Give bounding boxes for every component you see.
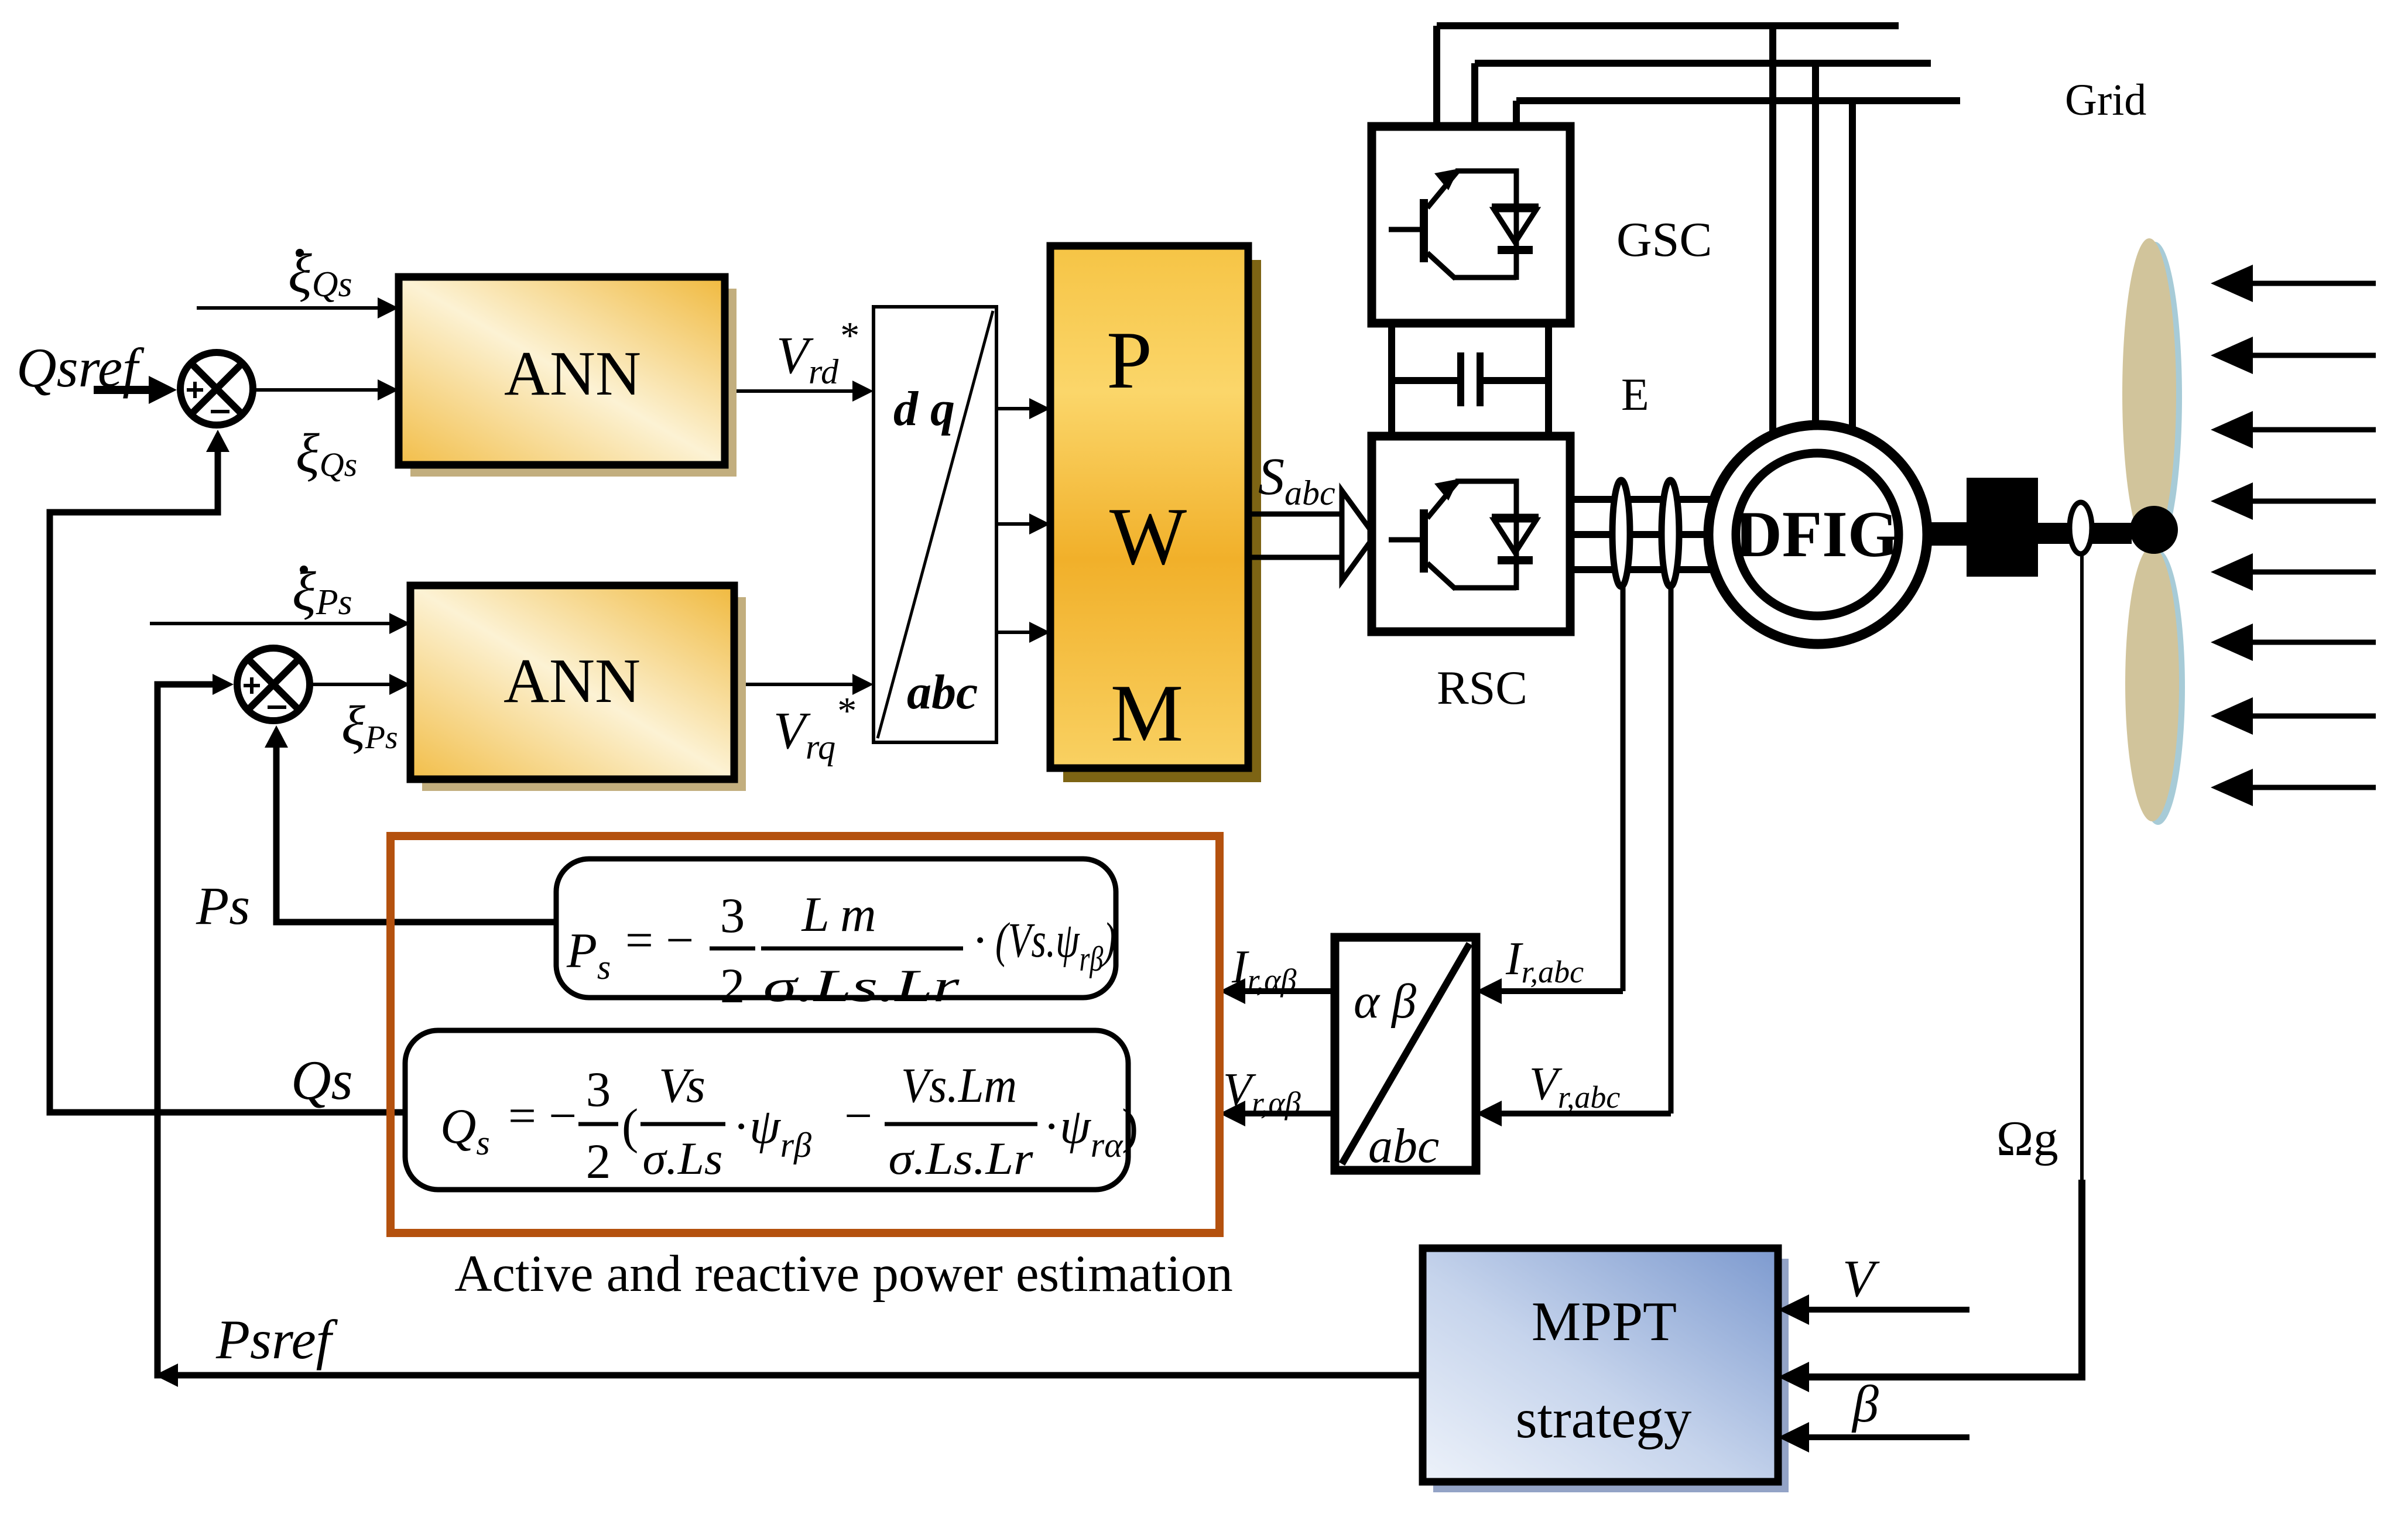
svg-text:β: β — [1851, 1375, 1879, 1433]
svg-text:σ.Ls.Lr: σ.Ls.Lr — [763, 960, 960, 1011]
svg-text:2: 2 — [720, 958, 745, 1013]
svg-text:P: P — [1107, 315, 1152, 406]
svg-text:= −: = − — [625, 913, 694, 968]
svg-text:Ps: Ps — [196, 876, 250, 936]
svg-text:σ.Ls.Lr: σ.Ls.Lr — [889, 1133, 1034, 1184]
svg-text:V: V — [1842, 1250, 1880, 1308]
svg-text:Grid: Grid — [2065, 76, 2146, 125]
svg-text:Qs: Qs — [291, 1049, 353, 1111]
svg-text:Vs.Lm: Vs.Lm — [901, 1058, 1017, 1113]
svg-text:strategy: strategy — [1516, 1388, 1692, 1450]
svg-text:Qsref: Qsref — [16, 337, 145, 399]
svg-text:·: · — [1043, 1099, 1060, 1154]
svg-text:Active and reactive power esti: Active and reactive power estimation — [454, 1245, 1233, 1303]
svg-text:= −: = − — [508, 1088, 577, 1143]
svg-text:Psref: Psref — [215, 1308, 338, 1371]
svg-text:Ωg: Ωg — [1996, 1111, 2058, 1166]
svg-text:Vs: Vs — [659, 1058, 705, 1113]
svg-text:RSC: RSC — [1437, 661, 1527, 714]
svg-text:3: 3 — [586, 1062, 611, 1117]
svg-text:·: · — [733, 1099, 749, 1154]
svg-text:MPPT: MPPT — [1532, 1290, 1677, 1352]
svg-text:W: W — [1109, 491, 1187, 582]
svg-text:2: 2 — [586, 1134, 611, 1189]
svg-text:abc: abc — [1368, 1119, 1439, 1173]
svg-text:): ) — [1122, 1099, 1138, 1154]
svg-text:DFIG: DFIG — [1735, 498, 1899, 571]
svg-text:d q: d q — [893, 382, 955, 436]
svg-text:σ.Ls: σ.Ls — [643, 1133, 723, 1184]
svg-text:3: 3 — [720, 888, 745, 943]
svg-text:abc: abc — [907, 665, 978, 720]
svg-text:ANN: ANN — [504, 339, 641, 409]
svg-text:ANN: ANN — [503, 646, 640, 716]
svg-text:GSC: GSC — [1616, 213, 1712, 267]
svg-text:(: ( — [622, 1099, 638, 1154]
svg-text:M: M — [1111, 668, 1183, 759]
svg-text:·: · — [972, 913, 988, 968]
svg-text:α β: α β — [1354, 974, 1416, 1029]
svg-text:−: − — [844, 1088, 872, 1143]
svg-text:E: E — [1621, 369, 1649, 420]
